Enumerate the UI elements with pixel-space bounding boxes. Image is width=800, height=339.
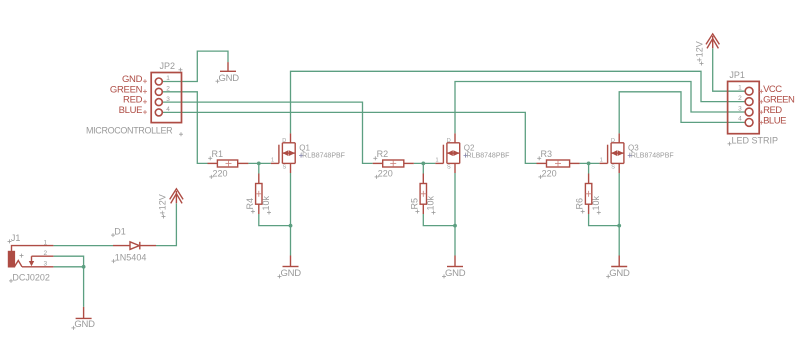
- ground below J1: [76, 307, 92, 319]
- wire D1 cathode to +12V: [156, 203, 176, 245]
- svg-text:10k: 10k: [591, 195, 601, 210]
- wire JP2 pin1 to GND symbol: [163, 51, 228, 81]
- JP2 pin 1: [155, 78, 162, 85]
- svg-text:JP2: JP2: [160, 61, 176, 71]
- wire +12V to JP1 pin1 VCC: [713, 48, 746, 91]
- J1 value label DCJ0202: [12, 273, 50, 283]
- svg-text:IRLB8748PBF: IRLB8748PBF: [300, 152, 345, 159]
- wire J1 pin3 to GND: [53, 267, 83, 307]
- wire R1 to Q1 gate with R4 tap: [248, 162, 271, 164]
- svg-text:BLUE: BLUE: [119, 105, 143, 116]
- svg-text:4: 4: [166, 106, 170, 113]
- wire R4 bottom to Q1 source: [259, 214, 291, 226]
- net label RED at JP1: [763, 105, 782, 116]
- svg-text:Q2: Q2: [464, 143, 475, 152]
- net label GND at JP2: [122, 74, 143, 85]
- svg-text:S: S: [283, 165, 287, 171]
- svg-text:IRLB8748PBF: IRLB8748PBF: [465, 152, 510, 159]
- svg-text:GND: GND: [219, 73, 240, 84]
- wire R3 to Q3 gate with R6 tap: [580, 162, 600, 164]
- JP2 pin numbers: [166, 75, 170, 113]
- svg-text:1N5404: 1N5404: [115, 253, 147, 263]
- svg-text:1: 1: [600, 158, 603, 164]
- svg-text:R2: R2: [377, 149, 389, 159]
- svg-text:Q1: Q1: [299, 143, 310, 152]
- svg-text:10k: 10k: [261, 195, 271, 210]
- J1 pin numbers: [44, 239, 48, 267]
- svg-text:VCC: VCC: [763, 84, 782, 95]
- resistor R5: [420, 174, 426, 215]
- resistor R3: [537, 160, 580, 167]
- svg-text:10k: 10k: [426, 195, 436, 210]
- connector JP1: [728, 81, 760, 133]
- svg-text:+12V: +12V: [694, 41, 704, 62]
- svg-text:GREEN: GREEN: [763, 95, 795, 106]
- JP2 name origin cross: [179, 68, 183, 72]
- connector JP2: [151, 73, 181, 123]
- wire gate node down to R4: [258, 163, 260, 173]
- transistor Q2: [435, 133, 459, 173]
- resistor R2: [373, 160, 414, 167]
- transistor Q1: [271, 133, 295, 173]
- JP2 pin 4: [155, 109, 162, 116]
- svg-text:D: D: [282, 138, 286, 144]
- wire J1 pin1 to D1 anode: [53, 245, 113, 247]
- svg-text:220: 220: [213, 169, 228, 179]
- wire Q3 source to GND: [618, 173, 620, 256]
- svg-text:1: 1: [271, 158, 274, 164]
- svg-text:220: 220: [542, 169, 557, 179]
- svg-text:LED STRIP: LED STRIP: [732, 136, 779, 146]
- svg-text:GND: GND: [445, 268, 466, 279]
- wire gate node down to R5: [422, 163, 424, 173]
- svg-text:R1: R1: [212, 149, 224, 159]
- LED STRIP value label: [732, 136, 779, 146]
- resistor R1: [208, 160, 249, 167]
- junction node R6 gate tap: [587, 162, 591, 166]
- svg-text:DCJ0202: DCJ0202: [12, 273, 50, 283]
- ground at JP2: [220, 62, 236, 71]
- ground below Q3: [611, 256, 627, 267]
- svg-text:3: 3: [166, 96, 170, 103]
- svg-text:R4: R4: [245, 198, 255, 210]
- svg-text:1: 1: [44, 239, 48, 246]
- wire Q1 source to GND: [290, 173, 292, 256]
- svg-text:GND: GND: [74, 319, 95, 330]
- wire Q2 source to GND: [454, 173, 456, 256]
- junction node R5 gate tap: [421, 162, 425, 166]
- svg-text:RED: RED: [763, 105, 782, 116]
- svg-text:JP1: JP1: [729, 70, 745, 80]
- svg-text:BLUE: BLUE: [763, 115, 786, 126]
- svg-text:R5: R5: [409, 198, 419, 210]
- wire R2 to Q2 gate with R5 tap: [414, 162, 436, 164]
- svg-text:3: 3: [44, 261, 48, 268]
- svg-text:J1: J1: [11, 233, 21, 243]
- supply +12V near JP1: [706, 34, 719, 49]
- svg-text:D: D: [611, 138, 615, 144]
- MICROCONTROLLER origin cross: [179, 132, 183, 136]
- svg-text:R3: R3: [541, 149, 553, 159]
- svg-text:D: D: [447, 138, 451, 144]
- net label GREEN at JP2: [110, 84, 143, 95]
- svg-text:2: 2: [166, 86, 170, 93]
- wire R6 bottom to Q3 source: [589, 214, 620, 226]
- svg-text:+12V: +12V: [158, 194, 168, 215]
- JP2 pin 2: [155, 88, 162, 95]
- net label VCC at JP1: [763, 84, 782, 95]
- svg-text:2: 2: [44, 250, 48, 257]
- JP1 pin 2: [745, 98, 753, 106]
- transistor Q3: [600, 133, 624, 173]
- JP1 pin numbers: [738, 85, 742, 123]
- svg-text:R6: R6: [575, 198, 585, 210]
- net label GREEN at JP1: [763, 95, 795, 106]
- diode D1: [113, 242, 156, 250]
- ground below Q2: [447, 256, 463, 267]
- JP2 label origin crosses: [143, 79, 147, 114]
- svg-text:1: 1: [166, 75, 170, 82]
- resistor R6: [585, 174, 591, 215]
- JP1 label origin crosses: [759, 89, 763, 124]
- wire gate node down to R6: [588, 163, 590, 173]
- JP2 pin 3: [155, 99, 162, 106]
- LED STRIP origin cross: [728, 142, 732, 146]
- wire net B: Q2 drain to JP1 pin3 RED: [455, 82, 745, 134]
- supply +12V near D1: [170, 189, 183, 204]
- resistor R4: [256, 174, 262, 215]
- svg-text:2: 2: [738, 95, 742, 102]
- JP1 pin 3: [745, 108, 753, 116]
- junction node Q1 source: [289, 224, 293, 228]
- JP2 name label: [160, 61, 176, 71]
- svg-text:1: 1: [436, 158, 439, 164]
- svg-text:D1: D1: [114, 227, 126, 237]
- junction node J1 ground: [82, 265, 86, 269]
- svg-text:GND: GND: [609, 268, 630, 279]
- net label RED at JP2: [123, 95, 143, 106]
- wire net A: Q1 drain to JP1 pin2 GREEN: [291, 71, 746, 133]
- svg-text:GND: GND: [281, 268, 302, 279]
- JP1 pin 4: [745, 119, 753, 127]
- svg-text:1: 1: [738, 85, 742, 92]
- net label BLUE at JP1: [763, 115, 786, 126]
- svg-text:3: 3: [738, 105, 742, 112]
- junction node R4 gate tap: [257, 162, 261, 166]
- svg-text:4: 4: [738, 116, 742, 123]
- wire R5 bottom to Q2 source: [423, 214, 455, 226]
- svg-text:MICROCONTROLLER: MICROCONTROLLER: [86, 126, 173, 136]
- svg-text:S: S: [447, 165, 451, 171]
- svg-text:Q3: Q3: [628, 143, 639, 152]
- wire GREEN net: JP2 pin2 to R1: [163, 92, 208, 164]
- MICROCONTROLLER value label: [86, 126, 173, 136]
- JP1 name label: [729, 70, 745, 80]
- J1 switch arrow head: [29, 261, 34, 266]
- wire BLUE net: JP2 pin4 to R3: [163, 112, 537, 163]
- svg-text:220: 220: [378, 169, 393, 179]
- svg-text:S: S: [611, 165, 615, 171]
- ground below Q1: [283, 256, 299, 267]
- J1 origin cross: [20, 254, 24, 258]
- wire RED net: JP2 pin3 to R2: [163, 102, 373, 163]
- power jack J1 DCJ0202: [9, 246, 54, 267]
- wire J1 pin2 to ground node: [53, 256, 83, 267]
- junction node Q2 source: [453, 224, 457, 228]
- J1 name label: [11, 233, 21, 243]
- JP1 pin 1: [745, 87, 753, 95]
- svg-text:IRLB8748PBF: IRLB8748PBF: [629, 152, 674, 159]
- wire net C: Q3 drain to JP1 pin4 BLUE: [619, 92, 745, 134]
- net label BLUE at JP2: [119, 105, 143, 116]
- junction node Q3 source: [617, 224, 621, 228]
